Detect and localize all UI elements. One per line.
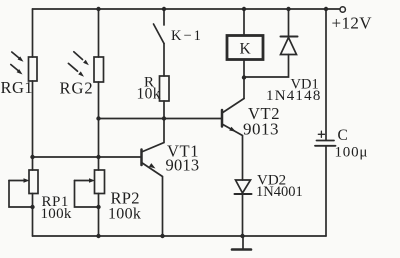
capacitor C top plate	[317, 140, 335, 142]
wire R bottom to node	[163, 101, 165, 119]
svg-text:RG1: RG1	[1, 78, 34, 97]
node dot top RG2	[96, 7, 100, 11]
node dot R bottom	[162, 116, 166, 120]
node dot RP1 wiper tie	[30, 205, 34, 209]
relay K coil box	[227, 36, 263, 60]
svg-text:K−1: K−1	[171, 28, 203, 44]
ground bar	[232, 248, 251, 251]
node dot top switch	[162, 7, 166, 11]
svg-text:9013: 9013	[243, 120, 279, 139]
wire ground stub	[242, 236, 244, 250]
wire top rail to VD1 cathode	[288, 9, 290, 37]
svg-text:100k: 100k	[41, 206, 72, 222]
wire bottom rail	[33, 235, 327, 237]
potentiometer RP1 body	[29, 170, 38, 194]
transistor VT1 collector	[142, 119, 165, 152]
light arrow 1 of RG2	[74, 52, 83, 60]
svg-text:1N4148: 1N4148	[266, 88, 322, 104]
svg-text:10k: 10k	[137, 86, 161, 103]
light arrow 1 of RG1	[12, 52, 20, 58]
resistor R body	[160, 76, 170, 101]
wire node row RG2 to VT2 base	[99, 118, 223, 120]
wire VD1 anode to relay junction	[244, 55, 289, 78]
photoresistor RG2	[94, 57, 104, 82]
RP1 wiper return wire	[9, 181, 33, 208]
diode VD1 cathode bar	[281, 36, 298, 38]
transistor VT2 collector	[222, 99, 244, 114]
RP2 wiper arrow	[75, 180, 90, 182]
svg-text:RG2: RG2	[60, 79, 94, 98]
VT1 emitter arrowhead	[149, 163, 156, 168]
node dot bottom VT1 emitter	[160, 234, 164, 238]
light arrow 2 of RG2	[68, 63, 77, 71]
wire left column above RG1	[32, 9, 34, 57]
capacitor C bottom plate	[315, 145, 336, 147]
wire relay K bottom to junction	[243, 60, 245, 78]
wire top rail	[33, 8, 340, 10]
wire top rail to RG2	[98, 9, 100, 57]
transistor VT2 base bar	[221, 110, 224, 127]
diode VD2 cathode bar	[235, 193, 252, 195]
diode VD1 triangle	[281, 38, 297, 55]
wire capacitor to bottom rail	[325, 146, 327, 236]
wire RP2 bottom to bottom rail	[98, 194, 100, 237]
wire RG1 bottom to RP1 top	[32, 81, 34, 170]
wire RP1 bottom to bottom rail	[32, 194, 34, 237]
wire top rail to relay K	[243, 9, 245, 36]
wire switch to R top	[163, 44, 165, 77]
svg-text:100k: 100k	[108, 206, 141, 223]
wire RG2 bottom through junctions to RP2 top	[98, 82, 100, 170]
wire VD2 to bottom rail	[242, 194, 244, 236]
light arrow 2 of RG1	[11, 65, 19, 71]
node dot top relay	[242, 7, 246, 11]
node dot RG2 base row	[96, 116, 100, 120]
wire base row RP column to VT1 base	[33, 156, 142, 158]
node dot RP2 wiper tie	[96, 205, 100, 209]
transistor VT2 emitter	[222, 124, 243, 180]
node dot RP2 column base row	[96, 155, 100, 159]
wire junction to VT2 collector	[243, 78, 245, 99]
diode VD2 triangle	[236, 180, 251, 193]
svg-text:K: K	[240, 41, 252, 58]
svg-text:+12V: +12V	[332, 14, 373, 33]
node dot bottom ground	[240, 234, 244, 238]
RP1 wiper arrow	[9, 180, 24, 182]
capacitor C plus sign	[318, 131, 324, 137]
node dot RG1 divider	[30, 155, 34, 159]
node dot relay VD1 junction	[242, 75, 246, 79]
transistor VT1 emitter	[142, 163, 163, 237]
potentiometer RP2 body	[95, 170, 105, 194]
VT2 emitter arrowhead	[229, 127, 236, 132]
svg-text:100μ: 100μ	[335, 145, 369, 161]
switch K-1 top contact wire	[163, 9, 165, 25]
terminal +12V circle	[340, 7, 345, 12]
RP2 wiper return wire	[75, 181, 99, 208]
node dot top VD1	[286, 7, 290, 11]
transistor VT1 base bar	[140, 150, 143, 166]
svg-text:9013: 9013	[166, 156, 200, 175]
node dot top right column	[324, 7, 328, 11]
wire top rail right column to capacitor	[325, 9, 327, 140]
svg-text:1N4001: 1N4001	[256, 184, 303, 200]
svg-text:C: C	[338, 127, 348, 144]
node dot bottom RP2	[96, 234, 100, 238]
switch K-1 blade	[154, 24, 165, 44]
photoresistor RG1	[29, 57, 38, 81]
